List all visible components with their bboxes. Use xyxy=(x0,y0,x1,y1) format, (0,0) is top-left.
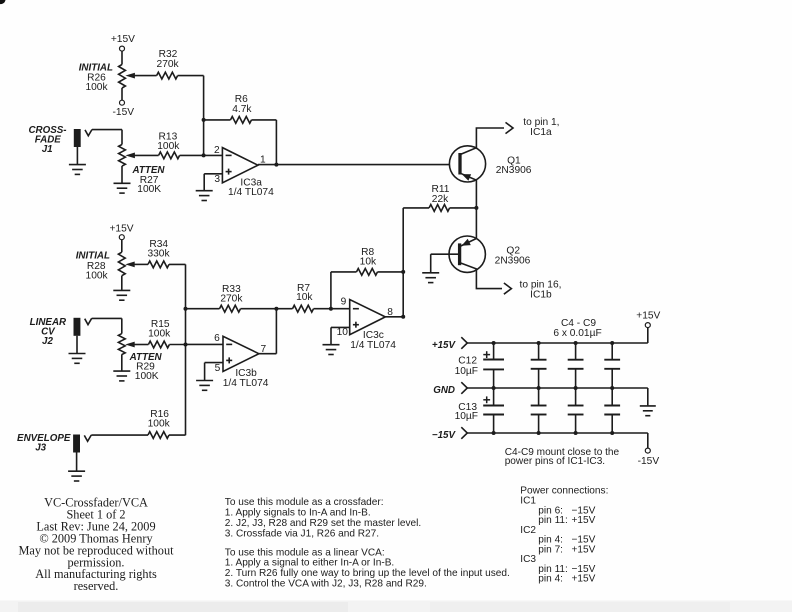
svg-text:9: 9 xyxy=(341,297,347,308)
svg-text:100k: 100k xyxy=(86,271,109,282)
svg-text:1. Apply signals to In-A and I: 1. Apply signals to In-A and In-B. xyxy=(225,508,371,519)
svg-text:2N3906: 2N3906 xyxy=(496,165,532,176)
svg-text:-15V: -15V xyxy=(113,107,135,118)
svg-text:-15V: -15V xyxy=(638,456,660,467)
svg-text:2. J2, J3, R28 and R29 set the: 2. J2, J3, R28 and R29 set the master le… xyxy=(225,518,421,529)
svg-text:+15V: +15V xyxy=(111,34,135,45)
svg-text:1. Apply a signal to either In: 1. Apply a signal to either In-A or In-B… xyxy=(225,558,394,569)
svg-text:+15V: +15V xyxy=(636,310,660,321)
svg-text:−15V: −15V xyxy=(432,430,457,441)
svg-text:IC1a: IC1a xyxy=(530,127,552,138)
svg-text:J3: J3 xyxy=(35,443,46,454)
svg-text:270k: 270k xyxy=(157,59,180,70)
svg-text:2N3906: 2N3906 xyxy=(495,255,531,266)
svg-text:100k: 100k xyxy=(148,419,171,430)
svg-text:100k: 100k xyxy=(148,329,171,340)
svg-text:3. Control the VCA with J2, J3: 3. Control the VCA with J2, J3, R28 and … xyxy=(225,579,427,590)
svg-text:10: 10 xyxy=(337,327,349,338)
svg-text:100k: 100k xyxy=(157,141,180,152)
svg-text:1/4 TL074: 1/4 TL074 xyxy=(350,340,396,351)
svg-text:To use this module as a crossf: To use this module as a crossfader: xyxy=(225,497,384,508)
svg-text:6: 6 xyxy=(214,333,220,344)
svg-text:To use this module as a linear: To use this module as a linear VCA: xyxy=(225,547,385,558)
svg-text:C12: C12 xyxy=(458,356,477,367)
svg-text:power pins of IC1-IC3.: power pins of IC1-IC3. xyxy=(505,456,605,467)
svg-text:pin 4:: pin 4: xyxy=(538,574,563,585)
svg-text:IC3: IC3 xyxy=(520,554,536,565)
svg-text:GND: GND xyxy=(433,385,455,396)
svg-text:3. Crossfade via J1, R26 and R: 3. Crossfade via J1, R26 and R27. xyxy=(225,529,379,540)
svg-text:1/4 TL074: 1/4 TL074 xyxy=(228,187,274,198)
svg-text:5: 5 xyxy=(215,363,221,374)
svg-text:+15V: +15V xyxy=(572,515,596,526)
svg-text:1/4 TL074: 1/4 TL074 xyxy=(223,378,269,389)
svg-text:pin 7:: pin 7: xyxy=(538,544,563,555)
svg-text:22k: 22k xyxy=(432,194,449,205)
svg-text:+15V: +15V xyxy=(432,340,457,351)
svg-text:+15V: +15V xyxy=(572,544,596,555)
svg-text:IC1b: IC1b xyxy=(530,289,552,300)
svg-text:+15V: +15V xyxy=(572,574,596,585)
svg-text:10k: 10k xyxy=(296,292,313,303)
svg-text:100k: 100k xyxy=(85,82,108,93)
svg-text:2. Turn R26 fully one way to b: 2. Turn R26 fully one way to bring up th… xyxy=(225,568,510,579)
svg-text:IC1: IC1 xyxy=(520,496,536,507)
svg-text:10µF: 10µF xyxy=(455,411,478,422)
svg-text:270k: 270k xyxy=(220,293,243,304)
svg-text:2: 2 xyxy=(214,145,220,156)
svg-text:J1: J1 xyxy=(42,144,53,155)
svg-text:pin 11:: pin 11: xyxy=(538,515,568,526)
svg-text:10µF: 10µF xyxy=(455,366,478,377)
svg-text:6 x 0.01µF: 6 x 0.01µF xyxy=(553,328,601,339)
svg-text:4.7k: 4.7k xyxy=(232,104,252,115)
svg-text:INITIAL: INITIAL xyxy=(76,250,110,261)
svg-text:J2: J2 xyxy=(42,336,53,347)
svg-text:reserved.: reserved. xyxy=(74,579,119,593)
svg-text:100K: 100K xyxy=(137,184,161,195)
svg-text:330k: 330k xyxy=(147,248,170,259)
svg-text:+15V: +15V xyxy=(109,223,133,234)
svg-text:100K: 100K xyxy=(135,371,159,382)
svg-text:3: 3 xyxy=(214,174,220,185)
svg-text:IC2: IC2 xyxy=(520,525,536,536)
svg-text:10k: 10k xyxy=(360,256,377,267)
